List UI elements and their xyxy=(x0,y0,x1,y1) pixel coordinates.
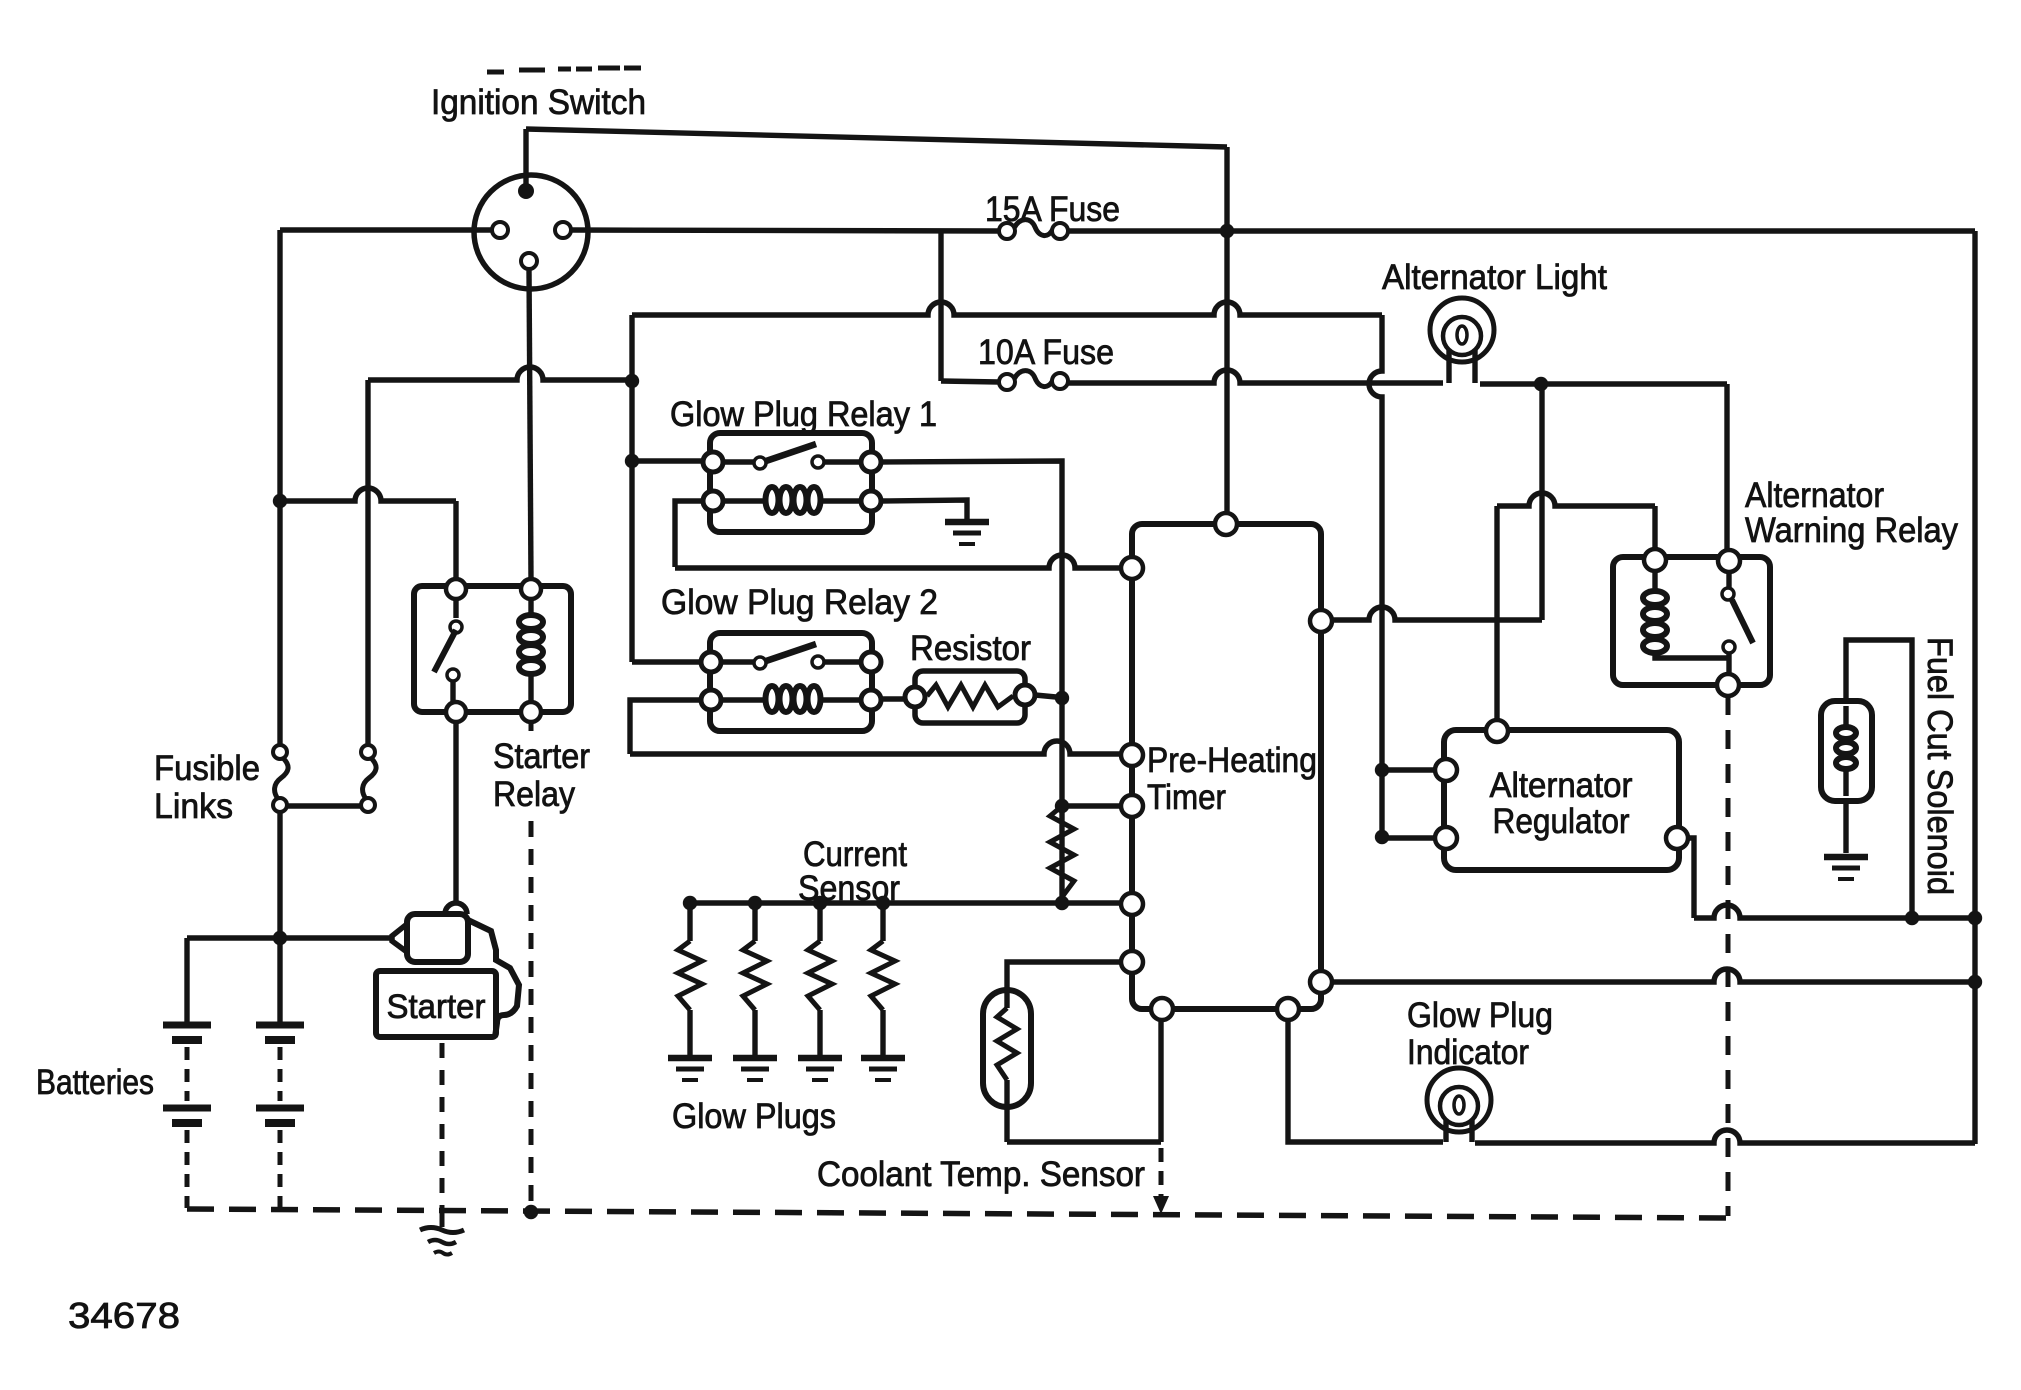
fusible link 2 xyxy=(361,745,375,759)
ground glow plug x883 xyxy=(861,1055,905,1062)
relay R1 terminals xyxy=(703,452,723,472)
warning relay coil xyxy=(1643,591,1667,605)
wire 15A fuse to right rail xyxy=(1068,228,1975,233)
fuel cut solenoid top lead xyxy=(1846,640,1912,918)
battery at x187 cell bars xyxy=(163,1022,211,1029)
glow plug at x883 xyxy=(880,903,885,941)
wire 10A fuse left lead xyxy=(941,381,999,382)
svg-text:Timer: Timer xyxy=(1147,778,1226,817)
svg-text:Fusible: Fusible xyxy=(154,749,260,788)
node junction at x1541 xyxy=(1534,377,1548,391)
wire ignition top lead xyxy=(523,129,528,185)
fuel cut solenoid box xyxy=(1821,701,1872,801)
wire battery feed to starter nose xyxy=(187,935,393,940)
fuse 10A xyxy=(1014,371,1053,387)
ignition switch body xyxy=(474,175,588,289)
svg-text:Links: Links xyxy=(154,787,233,826)
wire indicator to right rail (hops dashed x1727) xyxy=(1475,1130,1975,1143)
wire timer t5 to sensor xyxy=(1007,962,1121,1008)
starter relay coil xyxy=(519,615,543,629)
relay R2 terminals xyxy=(701,652,721,672)
wire timer r1 to 10A node (hops x1382) xyxy=(1332,607,1542,620)
wire relay1 coil-left loop to timer t1 (hops x1062) xyxy=(675,501,703,567)
fuel cut solenoid coil xyxy=(1843,706,1848,796)
ignition terminal right xyxy=(555,222,571,238)
resistor terminals xyxy=(905,687,925,707)
ground glow plug x820 xyxy=(798,1055,842,1062)
ignition terminal top (filled) xyxy=(518,183,534,199)
timer terminal t2 xyxy=(1121,744,1143,766)
warning relay coil stubs xyxy=(1655,571,1728,658)
wire feed to relay1 xyxy=(632,458,703,463)
node junction x1912 xyxy=(1905,911,1919,925)
ground glow plug x755 xyxy=(733,1055,777,1062)
wire down to starter relay switch xyxy=(453,501,458,579)
ground relay1 coil xyxy=(945,519,989,526)
pre-heating timer U1 box xyxy=(1132,524,1321,1009)
ground glow plug x690 xyxy=(668,1055,712,1062)
wire relay2 coil-left loop to timer t2 (hops x1062) xyxy=(630,700,701,754)
starter relay switch stub xyxy=(453,599,458,618)
wire resistor to current sensor rail xyxy=(1035,695,1056,697)
svg-text:Batteries: Batteries xyxy=(36,1063,154,1102)
node junction sensor top xyxy=(1055,799,1069,813)
timer terminal t5 xyxy=(1121,951,1143,973)
wire sensor bottom to timer b1 xyxy=(1007,1139,1161,1144)
alternator light leads xyxy=(1449,350,1475,383)
wire mid feed y315 xyxy=(632,302,1382,315)
fuel cut solenoid bottom lead xyxy=(1843,801,1848,853)
timer terminal t3 xyxy=(1121,795,1143,817)
glow plug at x755 xyxy=(752,903,757,941)
wire vertical x368 to fusible link xyxy=(365,380,370,745)
svg-text:Starter: Starter xyxy=(493,737,590,776)
svg-text:Glow Plug Relay 2: Glow Plug Relay 2 xyxy=(661,583,938,622)
wire relay1 switch output down right side xyxy=(881,461,1062,903)
svg-text:Alternator: Alternator xyxy=(1745,476,1884,515)
battery at x280 cell bars xyxy=(256,1022,304,1029)
glow plug at x820 xyxy=(817,903,822,941)
resistor element xyxy=(927,685,1013,707)
wire warning relay coil to regulator top (hops x1542) xyxy=(1652,506,1657,549)
wire link bottoms jumper xyxy=(287,803,361,808)
glow plug indicator bulb xyxy=(1427,1068,1491,1132)
node junction x632 y381 xyxy=(625,374,639,388)
wire t3 stub xyxy=(1062,803,1121,808)
warning relay switch blade xyxy=(1732,600,1753,643)
regulator box xyxy=(1444,730,1679,870)
wire vertical to pre-heating timer top xyxy=(1224,147,1229,513)
svg-text:Pre-Heating: Pre-Heating xyxy=(1147,741,1317,780)
scan artifact dashes xyxy=(487,68,641,72)
warning relay terminals xyxy=(1644,549,1666,571)
node junction x1382 regulator top xyxy=(1375,763,1389,777)
coolant temp sensor element xyxy=(997,1008,1017,1080)
node junction x632 y461 xyxy=(625,454,639,468)
wire glow plug bus to timer t4 xyxy=(690,900,1121,905)
node junction right rail y918 xyxy=(1968,911,1982,925)
fusible link 1 xyxy=(273,745,287,759)
node junction bus x883 xyxy=(876,896,890,910)
node junction right rail y982 xyxy=(1968,975,1982,989)
svg-text:Fuel Cut Solenoid: Fuel Cut Solenoid xyxy=(1920,637,1959,895)
timer terminal t4 xyxy=(1121,893,1143,915)
relay R2 switch contacts xyxy=(754,657,766,669)
dashed ground bus xyxy=(187,1209,1727,1218)
starter solenoid top dome xyxy=(445,903,467,914)
svg-text:Ignition Switch: Ignition Switch xyxy=(431,83,646,122)
starter drive housing xyxy=(468,920,519,1037)
relay R2 switch wires xyxy=(723,659,861,664)
ignition terminal left xyxy=(492,222,508,238)
wire feed to relay2 xyxy=(632,659,701,664)
starter relay coil stubs xyxy=(528,599,533,702)
svg-text:Indicator: Indicator xyxy=(1407,1033,1529,1072)
node junction bus x820 xyxy=(813,896,827,910)
dashed starter ground lead xyxy=(440,1043,445,1206)
relay R1 switch contacts xyxy=(754,457,766,469)
node junction x280 y501 xyxy=(273,494,287,508)
node junction sensor bottom xyxy=(1055,896,1069,910)
dashed drop to ground bus with arrow xyxy=(1159,1148,1164,1196)
svg-text:Coolant Temp. Sensor: Coolant Temp. Sensor xyxy=(817,1155,1145,1194)
glow plug at x690 xyxy=(687,903,692,941)
wire starter relay to starter solenoid xyxy=(453,722,458,903)
relay R2 switch blade xyxy=(766,644,816,661)
svg-text:Alternator Light: Alternator Light xyxy=(1382,258,1607,297)
relay R1 switch wires xyxy=(723,459,861,464)
relay R1 coil leads xyxy=(723,498,861,503)
ground starter (wavy) xyxy=(420,1228,464,1233)
relay R2 coil xyxy=(766,686,779,712)
svg-text:Glow Plug: Glow Plug xyxy=(1407,996,1553,1035)
timer terminal b2 xyxy=(1277,998,1299,1020)
timer terminal r1 xyxy=(1310,610,1332,632)
svg-text:34678: 34678 xyxy=(68,1295,180,1336)
wire 10A fuse to alternator light xyxy=(1068,370,1443,383)
ignition terminal bottom xyxy=(521,253,537,269)
wire branch down to 10A fuse xyxy=(938,231,943,381)
node junction 15A/timer-feed xyxy=(1220,224,1234,238)
node junction bus x690 xyxy=(683,896,697,910)
alternator light bulb xyxy=(1430,298,1494,362)
node junction bus x755 xyxy=(748,896,762,910)
relay R2 box xyxy=(710,633,872,731)
svg-text:Regulator: Regulator xyxy=(1493,802,1630,841)
wire relay1 coil to ground xyxy=(881,500,967,519)
svg-text:Glow Plugs: Glow Plugs xyxy=(672,1097,836,1136)
resistor box xyxy=(915,671,1025,723)
timer terminal t1 xyxy=(1121,557,1143,579)
starter relay switch contacts xyxy=(450,621,462,633)
wire to regulator left-top terminal xyxy=(1382,767,1435,772)
svg-text:Warning Relay: Warning Relay xyxy=(1745,511,1958,550)
wire right rail vertical xyxy=(1972,231,1977,1144)
starter relay box xyxy=(414,586,571,712)
wire timer b2 down and right xyxy=(1288,1020,1443,1142)
wire x280 to battery xyxy=(277,812,282,1025)
wire regulator output (hops dashed x1727) xyxy=(1688,838,1694,918)
glow plug indicator leads xyxy=(1446,1120,1472,1142)
starter body box xyxy=(376,971,496,1037)
warning relay switch contacts xyxy=(1722,588,1734,600)
wire to regulator left-bottom terminal xyxy=(1382,835,1435,840)
svg-text:10A Fuse: 10A Fuse xyxy=(978,333,1114,372)
relay R1 box xyxy=(710,433,872,532)
timer terminal top xyxy=(1215,513,1237,535)
fuse 15A xyxy=(1014,220,1053,236)
coolant temp sensor body xyxy=(983,990,1031,1107)
starter solenoid nose xyxy=(392,924,407,952)
starter solenoid body xyxy=(407,914,468,962)
wire left bus vertical x280 xyxy=(277,230,282,745)
timer terminal b1 xyxy=(1151,998,1173,1020)
wire ignition bottom lead to starter relay coil xyxy=(529,269,531,579)
current sensor element xyxy=(1050,806,1074,897)
svg-text:Alternator: Alternator xyxy=(1490,766,1633,805)
node junction x280 y938 xyxy=(273,931,287,945)
starter relay switch blade xyxy=(434,630,456,672)
wire top feed to timer (sloped) xyxy=(526,129,1227,147)
starter relay terminals xyxy=(446,579,466,599)
dashed starter relay ground lead xyxy=(529,722,534,731)
wire glow plug rail x632 xyxy=(629,315,634,662)
relay R1 coil xyxy=(766,487,779,513)
svg-text:Resistor: Resistor xyxy=(910,629,1031,668)
svg-text:Starter: Starter xyxy=(387,988,486,1026)
dashed ground from warning relay xyxy=(1726,696,1731,1216)
svg-text:Glow Plug Relay 1: Glow Plug Relay 1 xyxy=(670,395,937,434)
relay R1 switch blade xyxy=(766,444,816,461)
timer terminal r2 xyxy=(1310,971,1332,993)
relay R2 coil leads xyxy=(723,697,861,702)
node junction on ground bus xyxy=(524,1205,538,1219)
wire ignition left to left bus xyxy=(280,227,492,232)
wire relay2 to resistor xyxy=(881,696,907,701)
ground fuel cut solenoid xyxy=(1824,854,1868,861)
node junction x1382 regulator bottom xyxy=(1375,830,1389,844)
wire alternator light to warning relay feed xyxy=(1480,381,1727,386)
wire branch y380 (hops ignition lead) xyxy=(368,367,632,380)
regulator terminals xyxy=(1486,720,1508,742)
wire corner down to warning relay switch xyxy=(1724,384,1729,550)
warning relay switch stub xyxy=(1726,572,1731,588)
wire ignition right to 15A fuse xyxy=(571,230,999,231)
warning relay K1 box xyxy=(1613,557,1770,685)
wire timer r2 to right rail (hops dashed x1727) xyxy=(1332,969,1975,982)
wire vertical x1382 to regulator (hops over 10A wire) xyxy=(1369,315,1382,838)
node junction resistor output xyxy=(1055,691,1069,705)
svg-text:Relay: Relay xyxy=(493,775,575,814)
wire A to starter relay (hops x368) xyxy=(280,488,456,501)
